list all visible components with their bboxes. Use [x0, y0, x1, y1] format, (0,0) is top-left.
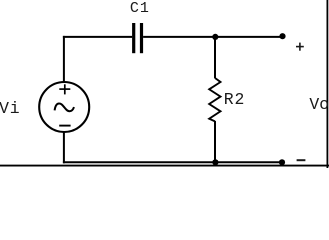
capacitor C1 right plate	[140, 23, 143, 53]
resistor R2 bottom lead	[214, 121, 216, 162]
resistor R2 zigzag	[209, 78, 220, 121]
frame right border	[326, 0, 328, 168]
node junction bottom (bottom of R2)	[212, 159, 218, 165]
label - (output minus)	[297, 159, 306, 161]
capacitor C1 left plate	[132, 23, 135, 53]
source minus sign	[59, 125, 70, 127]
svg-text:Vo: Vo	[309, 95, 329, 114]
wire bottom-left vertical (source to bottom rail)	[63, 132, 65, 163]
resistor R2 top lead	[214, 37, 216, 78]
wire top rail right segment	[143, 36, 282, 38]
source plus sign	[59, 84, 70, 94]
svg-text:Vi: Vi	[0, 99, 20, 118]
wire bottom rail	[63, 161, 282, 163]
node junction top (top of R2)	[212, 34, 218, 40]
frame bottom border	[0, 165, 329, 167]
wire top rail left segment	[63, 36, 132, 38]
source sine wave	[55, 104, 74, 112]
node terminal bottom-right	[279, 159, 285, 165]
svg-text:C1: C1	[130, 0, 150, 17]
node terminal top-right	[279, 33, 285, 39]
svg-text:R2: R2	[224, 90, 245, 109]
wire top-left vertical (source to top rail)	[63, 36, 65, 82]
label + (output plus)	[296, 43, 304, 51]
voltage source Vi circle	[39, 82, 89, 132]
